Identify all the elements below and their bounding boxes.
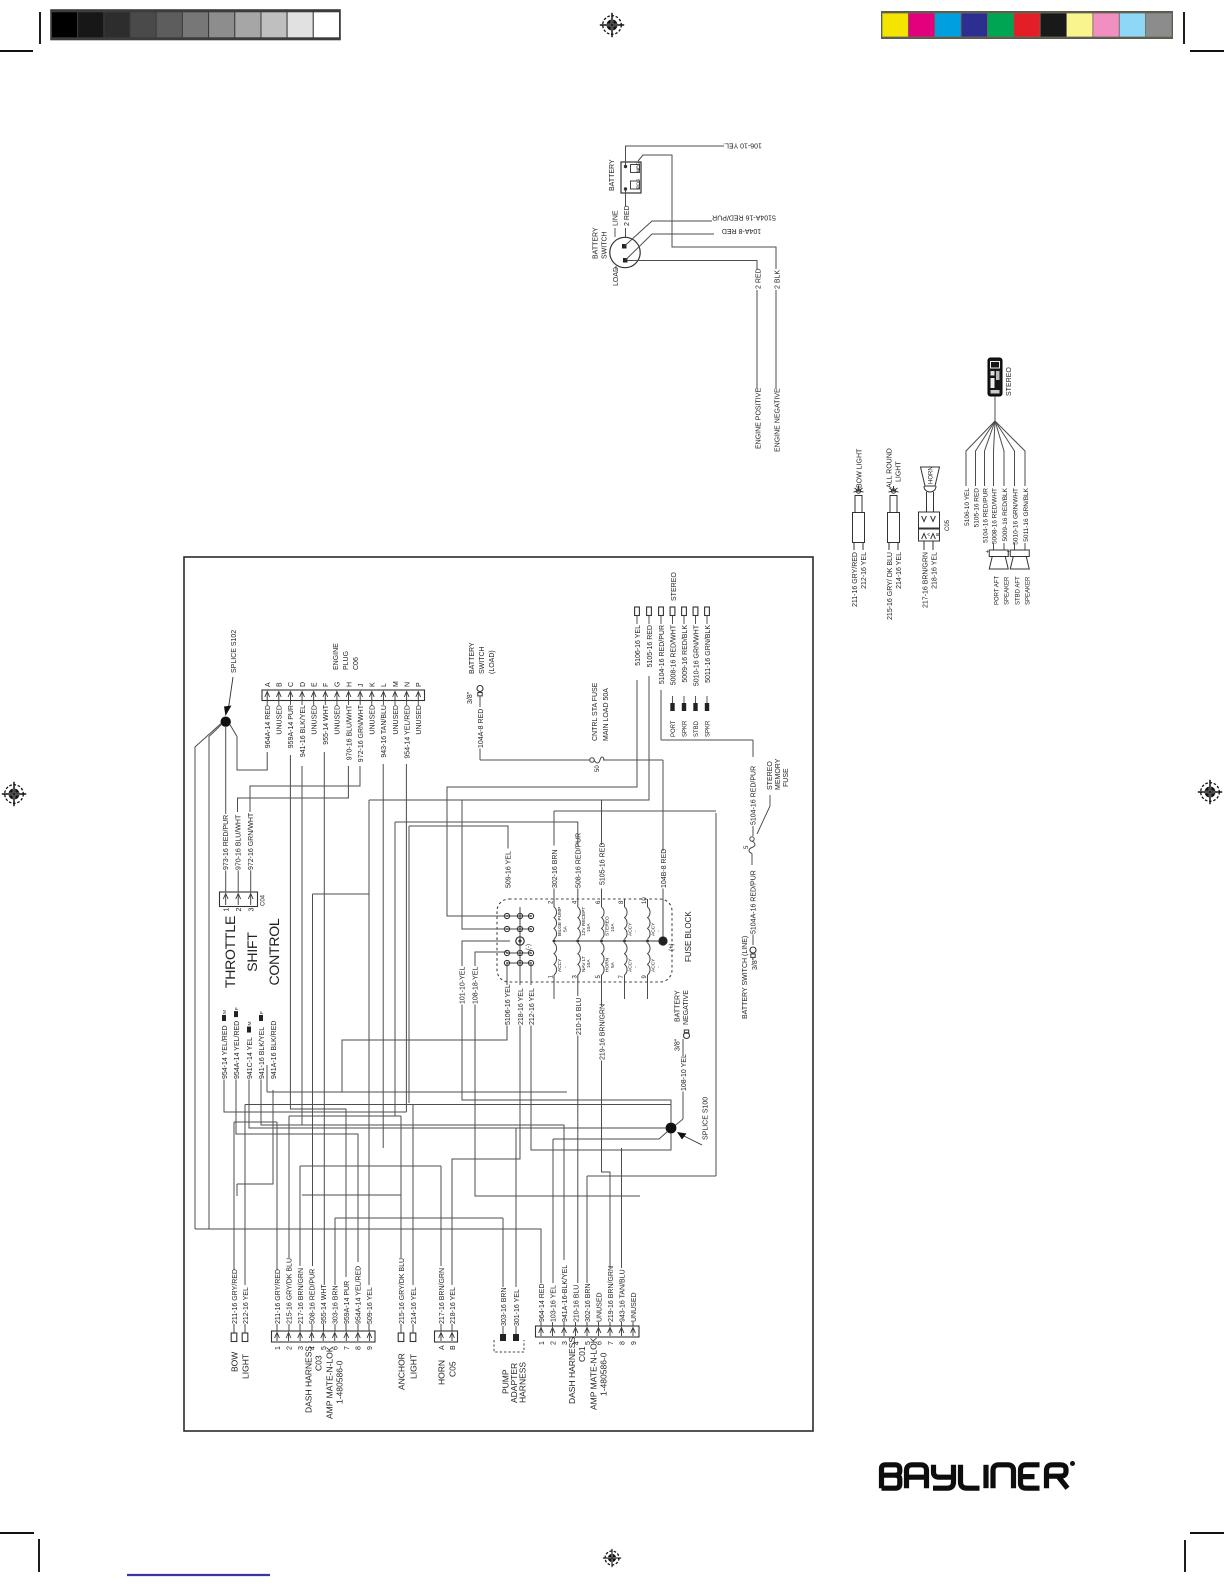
svg-text:-: - bbox=[657, 930, 662, 932]
svg-text:LINE: LINE bbox=[613, 210, 620, 226]
svg-text:C05: C05 bbox=[448, 1361, 458, 1377]
wire 103-16 YEL to splice diag bbox=[552, 1139, 554, 1283]
wire bbox=[586, 1322, 588, 1326]
all-round light bbox=[888, 486, 900, 550]
wire horn 214 density run bbox=[475, 1005, 640, 1197]
svg-text:M: M bbox=[393, 681, 400, 687]
svg-text:-: - bbox=[563, 966, 568, 968]
svg-text:2: 2 bbox=[236, 908, 243, 912]
wire 973-16 RED/PUR S102 to C04-1 bbox=[209, 725, 541, 1284]
wire bbox=[632, 1322, 634, 1326]
wire bbox=[401, 1324, 413, 1333]
svg-text:SPLICE S102: SPLICE S102 bbox=[231, 630, 238, 673]
engine plug connector C06 bbox=[262, 690, 425, 701]
svg-text:954A-14 YEL/RED: 954A-14 YEL/RED bbox=[356, 1266, 363, 1324]
wire bbox=[503, 1326, 516, 1334]
wire bbox=[552, 1322, 554, 1326]
horn bbox=[919, 467, 940, 550]
svg-text:219-16 BRN/GRN: 219-16 BRN/GRN bbox=[599, 1004, 606, 1060]
wire bbox=[288, 1324, 290, 1331]
svg-text:103-16 YEL: 103-16 YEL bbox=[550, 1285, 557, 1322]
svg-text:5011-16 GRN/BLK: 5011-16 GRN/BLK bbox=[705, 625, 712, 683]
wire splice S100 top run bbox=[412, 1105, 414, 1286]
wire 104B-8 RED feed bbox=[462, 1005, 671, 1123]
svg-text:214-16 YEL: 214-16 YEL bbox=[411, 1287, 418, 1324]
svg-text:301-16 YEL: 301-16 YEL bbox=[514, 1289, 521, 1326]
svg-text:509-16 YEL: 509-16 YEL bbox=[367, 1287, 374, 1324]
svg-text:P: P bbox=[416, 682, 423, 687]
wire 970-16 BLU/WHT C04-2 to engine H bbox=[250, 766, 360, 812]
battery positive cable 2 RED to switch bbox=[625, 190, 627, 238]
svg-text:DASH HARNESS: DASH HARNESS bbox=[567, 1337, 577, 1404]
svg-text:219-16 BRN/GRN: 219-16 BRN/GRN bbox=[608, 1266, 615, 1322]
svg-text:A: A bbox=[439, 1345, 446, 1350]
svg-text:STEREO: STEREO bbox=[605, 916, 611, 936]
wire 509-16 YEL feed bbox=[554, 889, 602, 900]
svg-text:J: J bbox=[358, 684, 365, 688]
wire bbox=[234, 1324, 245, 1333]
stereo memory fuse branch bbox=[660, 690, 662, 740]
wire 101-10-YEL to ground bus bbox=[475, 952, 507, 966]
svg-text:7: 7 bbox=[344, 1346, 351, 1350]
svg-text:10A: 10A bbox=[610, 923, 616, 932]
svg-text:218-16 YEL: 218-16 YEL bbox=[518, 988, 525, 1025]
svg-text:1: 1 bbox=[224, 908, 231, 912]
svg-text:AMP MATE-N-LOK: AMP MATE-N-LOK bbox=[589, 1337, 599, 1410]
port/stbd speaker bullet plugs bbox=[670, 703, 674, 711]
svg-text:HARNESS: HARNESS bbox=[518, 1362, 528, 1403]
svg-text:SHIFT: SHIFT bbox=[244, 932, 260, 972]
svg-text:H: H bbox=[346, 682, 353, 687]
svg-text:5104A-16 RED/PUR: 5104A-16 RED/PUR bbox=[712, 214, 776, 221]
wire 214-16 YEL anchor drop bbox=[553, 1132, 668, 1140]
throttle/shift control connector C04 bbox=[220, 892, 258, 907]
wire 508/5105 jog bbox=[302, 1194, 401, 1196]
svg-text:211-16 GRY/RED: 211-16 GRY/RED bbox=[275, 1269, 282, 1324]
svg-text:212-16 YEL: 212-16 YEL bbox=[243, 1287, 250, 1324]
svg-text:UNUSED: UNUSED bbox=[596, 1292, 603, 1322]
svg-text:215-16 GRY/DK BLU: 215-16 GRY/DK BLU bbox=[286, 1258, 293, 1324]
svg-text:2 BLK: 2 BLK bbox=[775, 270, 782, 289]
svg-text:5A: 5A bbox=[562, 925, 568, 932]
svg-text:BATTERY: BATTERY bbox=[469, 642, 476, 674]
svg-text:12V RECEPT: 12V RECEPT bbox=[581, 907, 587, 936]
wire 215-16 GRY/DK BLU run bbox=[300, 1166, 441, 1266]
wire 210-16 BLU fuse to C01-4 bbox=[602, 982, 611, 1268]
svg-text:50: 50 bbox=[595, 765, 601, 772]
svg-text:972-16 GRN/WHT: 972-16 GRN/WHT bbox=[358, 704, 365, 762]
svg-text:ENGINE NEGATIVE: ENGINE NEGATIVE bbox=[775, 388, 782, 452]
svg-text:C03: C03 bbox=[314, 1355, 324, 1371]
svg-text:(LOAD): (LOAD) bbox=[489, 650, 496, 674]
svg-text:UNUSED: UNUSED bbox=[393, 705, 400, 735]
svg-text:BATTERY SWITCH (LINE): BATTERY SWITCH (LINE) bbox=[742, 936, 749, 1019]
svg-text:954-14 YEL/RED: 954-14 YEL/RED bbox=[404, 705, 411, 759]
wire 218-16 YEL to horn B bbox=[531, 963, 671, 1150]
svg-text:ACCY: ACCY bbox=[628, 958, 634, 972]
svg-text:509-16 YEL: 509-16 YEL bbox=[506, 851, 513, 888]
svg-text:9: 9 bbox=[631, 1341, 638, 1345]
wire C04-1 stub bbox=[237, 871, 239, 893]
svg-text:9: 9 bbox=[367, 1346, 374, 1350]
svg-text:5011-16 GRN/BLK: 5011-16 GRN/BLK bbox=[1023, 487, 1030, 541]
wire bbox=[575, 1322, 577, 1326]
svg-text:5106-10 YEL: 5106-10 YEL bbox=[964, 488, 971, 526]
svg-text:SPLICE S100: SPLICE S100 bbox=[703, 1097, 710, 1140]
svg-text:211-16 GRY/RED: 211-16 GRY/RED bbox=[232, 1269, 239, 1324]
wire bbox=[609, 1322, 611, 1326]
svg-text:2: 2 bbox=[286, 1346, 293, 1350]
svg-text:ACCY: ACCY bbox=[628, 922, 634, 936]
svg-text:E: E bbox=[311, 682, 318, 687]
svg-text:SWITCH: SWITCH bbox=[602, 231, 609, 259]
bottom blue line bbox=[127, 1574, 270, 1576]
svg-text:UNUSED: UNUSED bbox=[631, 1292, 638, 1322]
svg-text:954A-14 YEL/RED: 954A-14 YEL/RED bbox=[234, 1021, 241, 1079]
port aft speaker bbox=[989, 550, 1008, 569]
svg-text:BOW LIGHT: BOW LIGHT bbox=[857, 448, 864, 488]
wire 959A-14 PUR engine C to C03-7 bbox=[301, 766, 303, 1125]
svg-text:+: + bbox=[1007, 550, 1011, 556]
svg-text:STBD: STBD bbox=[694, 720, 700, 737]
svg-text:5009-16 RED/BLK: 5009-16 RED/BLK bbox=[682, 625, 689, 683]
wire 972-16 GRN/WHT C04-3 to engine J bbox=[290, 755, 346, 1277]
svg-text:8: 8 bbox=[619, 1341, 626, 1345]
wire 108-18-YEL lower run bbox=[230, 725, 267, 771]
svg-text:943-16 TAN/BLU: 943-16 TAN/BLU bbox=[381, 705, 388, 758]
svg-text:3/8": 3/8" bbox=[467, 691, 474, 704]
splice S102 bbox=[221, 717, 231, 727]
wire S102 to engine A bbox=[225, 871, 227, 893]
svg-text:NAV LT: NAV LT bbox=[581, 956, 587, 972]
wire C04-3 stub bbox=[238, 766, 349, 812]
wire: 104A-8 RED to fuse block via 50A fuse bbox=[479, 696, 481, 707]
svg-text:A: A bbox=[926, 532, 932, 536]
svg-text:MAIN LOAD 50A: MAIN LOAD 50A bbox=[603, 688, 610, 741]
svg-text:SPKR: SPKR bbox=[683, 720, 689, 737]
wire 101-10-YEL splice feed bbox=[245, 1104, 671, 1106]
wire 106-10 YEL bbox=[626, 146, 725, 165]
wire 941C-14 YEL pigtail to splice S100 bbox=[261, 1080, 564, 1261]
svg-text:NEGATIVE: NEGATIVE bbox=[683, 990, 690, 1025]
svg-text:ACCY: ACCY bbox=[557, 958, 563, 972]
svg-text:THROTTLE: THROTTLE bbox=[222, 916, 238, 988]
grayscale calibration bar bbox=[52, 11, 340, 40]
svg-text:K: K bbox=[370, 682, 377, 687]
svg-text:SPKR: SPKR bbox=[706, 720, 712, 737]
svg-text:108-10 YEL: 108-10 YEL bbox=[681, 1054, 688, 1091]
color calibration bar bbox=[882, 12, 1172, 38]
svg-text:5104A-16 RED/PUR: 5104A-16 RED/PUR bbox=[751, 870, 758, 934]
svg-text:214-16 YEL: 214-16 YEL bbox=[896, 552, 903, 589]
svg-text:1: 1 bbox=[275, 1346, 282, 1350]
svg-text:1-480586-0: 1-480586-0 bbox=[335, 1360, 345, 1404]
wire bbox=[540, 1322, 542, 1326]
svg-text:ENGINE POSITIVE: ENGINE POSITIVE bbox=[756, 388, 763, 449]
wire bbox=[323, 1324, 325, 1331]
svg-text:5104-16 RED/PUR: 5104-16 RED/PUR bbox=[751, 766, 758, 825]
svg-text:A: A bbox=[265, 682, 272, 687]
anchor light connector bbox=[398, 1333, 404, 1342]
stereo bullet connectors bbox=[635, 607, 640, 616]
registration marks bbox=[600, 13, 624, 37]
splice S100 bbox=[666, 1123, 677, 1134]
svg-text:508-16 RED/PUR: 508-16 RED/PUR bbox=[309, 1269, 316, 1324]
svg-text:STEREO: STEREO bbox=[671, 572, 678, 601]
wire 943-16 TAN/BLU engine L drop bbox=[405, 764, 407, 1112]
svg-text:217-16 BRN/GRN: 217-16 BRN/GRN bbox=[439, 1268, 446, 1324]
wire bbox=[311, 1324, 313, 1331]
BAYLINER logo bbox=[882, 1465, 1068, 1488]
svg-text:106-10 YEL.: 106-10 YEL. bbox=[723, 142, 762, 149]
svg-text:973-16 RED/PUR: 973-16 RED/PUR bbox=[223, 815, 230, 870]
svg-text:PORT AFT: PORT AFT bbox=[995, 576, 1001, 605]
svg-text:7: 7 bbox=[608, 1341, 615, 1345]
svg-text:5A: 5A bbox=[610, 961, 616, 968]
wire 108-18-YEL to ground bus bbox=[267, 963, 567, 1092]
dash harness C03 connector bbox=[272, 1331, 376, 1342]
svg-text:HORN: HORN bbox=[605, 957, 611, 972]
stbd aft speaker bbox=[1010, 550, 1029, 569]
svg-text:POS: POS bbox=[636, 179, 642, 189]
svg-text:970-16 BLU/WHT: 970-16 BLU/WHT bbox=[346, 704, 353, 760]
svg-text:UNUSED: UNUSED bbox=[277, 705, 284, 735]
wire network bbox=[195, 676, 671, 1334]
svg-text:943-16 TAN/BLU: 943-16 TAN/BLU bbox=[619, 1269, 626, 1322]
svg-text:217-16 BRN/GRN: 217-16 BRN/GRN bbox=[298, 1268, 305, 1324]
svg-text:5010-16 GRN/WHT: 5010-16 GRN/WHT bbox=[693, 624, 700, 686]
svg-text:CONTROL: CONTROL bbox=[266, 918, 282, 985]
svg-text:B: B bbox=[935, 533, 941, 536]
wire bbox=[563, 1322, 565, 1326]
fuse block dashed outline bbox=[497, 899, 672, 982]
svg-text:FUSE BLOCK: FUSE BLOCK bbox=[684, 911, 693, 962]
svg-text:2: 2 bbox=[550, 1341, 557, 1345]
wire 954A-14 YEL/RED pigtail to C03-8 bbox=[249, 1080, 666, 1129]
wire 217-16 BRN/GRN run bbox=[335, 1218, 503, 1287]
svg-text:964-14 RED: 964-14 RED bbox=[539, 1283, 546, 1322]
wire bbox=[357, 1324, 359, 1331]
wire 955-14 WHT engine F to C03-5 bbox=[382, 764, 384, 1148]
wire 941-16 BLK/YEL engine D drop bbox=[323, 752, 325, 1285]
svg-text:ALL ROUND: ALL ROUND bbox=[887, 448, 894, 488]
wire 303-16 BRN run bbox=[515, 1128, 517, 1287]
svg-text:210-16 BLU: 210-16 BLU bbox=[576, 998, 583, 1035]
svg-text:5104-16 RED/PUR: 5104-16 RED/PUR bbox=[982, 488, 989, 543]
svg-text:B: B bbox=[277, 682, 284, 687]
wire 5106-16 YEL stereo to fuse row1 bbox=[369, 676, 649, 929]
stereo wire fan bbox=[966, 396, 1025, 486]
ground bus strip bbox=[519, 907, 521, 970]
wire 943-16 TAN/BLU C01-8 drop bbox=[276, 1324, 278, 1331]
wire bbox=[299, 1324, 301, 1331]
svg-text:BATTERY: BATTERY bbox=[593, 227, 600, 259]
svg-text:BOW: BOW bbox=[229, 1352, 239, 1372]
wire 954-14 YEL/RED pigtail to run bbox=[236, 1080, 358, 1263]
switch line wire 5104A-16 RED/PUR bbox=[625, 221, 758, 389]
svg-text:303-16 BRN: 303-16 BRN bbox=[501, 1287, 508, 1326]
svg-text:C06: C06 bbox=[353, 657, 360, 670]
svg-text:212-16 YEL: 212-16 YEL bbox=[529, 988, 536, 1025]
svg-text:964A-14 RED: 964A-14 RED bbox=[265, 705, 272, 748]
wire S102 to dash C01-1 964-14 RED bbox=[195, 724, 221, 1230]
svg-text:BATTERY: BATTERY bbox=[675, 990, 682, 1022]
svg-text:954-14 YEL/RED: 954-14 YEL/RED bbox=[222, 1025, 229, 1079]
bow light connector bbox=[231, 1333, 237, 1342]
wire 508-16 RED/PUR col2 feed bbox=[409, 826, 508, 849]
svg-text:8: 8 bbox=[356, 1346, 363, 1350]
svg-text:959A-14 PUR: 959A-14 PUR bbox=[288, 705, 295, 748]
svg-text:1: 1 bbox=[539, 1341, 546, 1345]
svg-text:104A-8 RED: 104A-8 RED bbox=[722, 227, 761, 234]
svg-text:101-10-YEL: 101-10-YEL bbox=[460, 967, 467, 1004]
svg-text:5010-16 GRN/WHT: 5010-16 GRN/WHT bbox=[1012, 488, 1019, 545]
svg-text:217-16 BRN/GRN: 217-16 BRN/GRN bbox=[922, 552, 929, 608]
svg-text:941-16 BLK/YEL: 941-16 BLK/YEL bbox=[259, 1027, 266, 1079]
wire 964A-14 RED splice S102 branch bbox=[225, 726, 227, 814]
svg-text:941A-16 BLK/RED: 941A-16 BLK/RED bbox=[271, 1021, 278, 1079]
svg-text:1-480586-0: 1-480586-0 bbox=[599, 1352, 609, 1396]
svg-text:2 RED: 2 RED bbox=[756, 268, 763, 289]
speaker wires bbox=[994, 543, 1026, 550]
stereo head unit bbox=[988, 358, 1002, 396]
svg-text:941A-16-BLK/YEL: 941A-16-BLK/YEL bbox=[562, 1265, 569, 1322]
wire bbox=[598, 1322, 600, 1326]
wire fuse bottom stubs bbox=[553, 811, 555, 846]
wire bbox=[368, 1324, 370, 1331]
wire 5105-16 RED stereo to fuse col3 bbox=[601, 800, 603, 845]
svg-text:215-16 GRY/ DK BLU: 215-16 GRY/ DK BLU bbox=[887, 552, 894, 620]
pump adapter harness bbox=[494, 1340, 524, 1352]
main schematic frame bbox=[184, 557, 813, 1431]
svg-text:941-16 BLK/YEL: 941-16 BLK/YEL bbox=[300, 705, 307, 757]
svg-text:C01: C01 bbox=[577, 1346, 587, 1362]
svg-text:UNUSED: UNUSED bbox=[416, 705, 423, 735]
svg-text:M: M bbox=[247, 1022, 253, 1026]
svg-text:STEREO: STEREO bbox=[1006, 367, 1013, 396]
wire bbox=[621, 1322, 623, 1326]
svg-text:(+): (+) bbox=[669, 943, 675, 951]
svg-text:211-16 GRY/RED: 211-16 GRY/RED bbox=[852, 552, 859, 607]
wire 5105-16 RED run drop bbox=[313, 800, 370, 1285]
svg-text:N: N bbox=[404, 682, 411, 687]
svg-text:MEMORY: MEMORY bbox=[775, 758, 782, 790]
svg-text:104A-8 RED: 104A-8 RED bbox=[478, 709, 485, 748]
svg-text:LOAD: LOAD bbox=[613, 267, 620, 286]
svg-text:LIGHT: LIGHT bbox=[240, 1354, 250, 1379]
svg-text:5009-16 RED/BLK: 5009-16 RED/BLK bbox=[1002, 487, 1009, 541]
battery switch bbox=[610, 237, 640, 267]
svg-text:F: F bbox=[323, 683, 330, 687]
svg-text:-: - bbox=[657, 966, 662, 968]
svg-text:C04: C04 bbox=[261, 894, 267, 906]
dash harness C01 connector bbox=[536, 1326, 640, 1337]
svg-text:LIGHT: LIGHT bbox=[408, 1354, 418, 1379]
wire bbox=[334, 1324, 336, 1331]
wire bbox=[441, 1324, 452, 1331]
fuse columns bbox=[554, 940, 663, 942]
svg-text:-: - bbox=[634, 966, 639, 968]
svg-text:210-16 BLU: 210-16 BLU bbox=[573, 1285, 580, 1322]
svg-text:ACCY: ACCY bbox=[651, 922, 657, 936]
svg-text:SPEAKER: SPEAKER bbox=[1005, 576, 1011, 605]
svg-text:G: G bbox=[335, 682, 342, 687]
svg-text:10A: 10A bbox=[586, 959, 592, 968]
svg-text:PLUG: PLUG bbox=[343, 651, 350, 670]
svg-text:5106-16 YEL: 5106-16 YEL bbox=[505, 984, 512, 1025]
wire 5105-16 RED col3 stub bbox=[462, 941, 510, 966]
wire 103-16 YEL C01-2 drop bbox=[234, 1122, 277, 1270]
svg-text:5105-16 RED: 5105-16 RED bbox=[599, 843, 606, 885]
svg-text:SPEAKER: SPEAKER bbox=[1026, 576, 1032, 605]
svg-text:5105-16 RED: 5105-16 RED bbox=[647, 625, 654, 667]
svg-text:955-14 WHT: 955-14 WHT bbox=[323, 704, 330, 744]
svg-text:303-16 BRN: 303-16 BRN bbox=[333, 1285, 340, 1324]
svg-text:(-): (-) bbox=[526, 944, 532, 950]
wire bbox=[345, 1324, 347, 1331]
svg-text:5105-16 RED: 5105-16 RED bbox=[973, 488, 980, 528]
svg-text:5008-16 RED/WHT: 5008-16 RED/WHT bbox=[670, 624, 677, 685]
svg-text:5106-16 YEL: 5106-16 YEL bbox=[635, 625, 642, 666]
bow light bbox=[853, 486, 865, 550]
wire S102 left branch bbox=[408, 826, 410, 1103]
wire 212-16 YEL bow drop bbox=[289, 1116, 401, 1258]
svg-text:CNTRL STA FUSE: CNTRL STA FUSE bbox=[592, 682, 599, 741]
svg-text:AMP MATE-N-LOK: AMP MATE-N-LOK bbox=[325, 1346, 335, 1419]
svg-text:L: L bbox=[381, 683, 388, 687]
svg-text:NEG: NEG bbox=[636, 162, 642, 173]
svg-text:SWITCH: SWITCH bbox=[479, 646, 486, 674]
svg-text:955-14 WHT: 955-14 WHT bbox=[321, 1284, 328, 1324]
svg-text:BATTERY: BATTERY bbox=[609, 159, 616, 191]
svg-text:972-16 GRN/WHT: 972-16 GRN/WHT bbox=[248, 812, 255, 870]
wire 302-16 BRN col1 feed bbox=[395, 822, 578, 1116]
svg-text:218-16 YEL: 218-16 YEL bbox=[450, 1287, 457, 1324]
wire 941-16 BLK/YEL pigtail run bbox=[195, 1090, 273, 1229]
svg-text:10: 10 bbox=[642, 897, 648, 904]
wire 5106-16 YEL below block bbox=[452, 963, 520, 1285]
svg-text:F: F bbox=[259, 1011, 265, 1014]
wire 954-14 YEL/RED engine N drop bbox=[224, 1080, 406, 1113]
inner route rectangle bbox=[715, 813, 717, 1176]
svg-text:10A: 10A bbox=[586, 923, 592, 932]
svg-text:302-16 BRN: 302-16 BRN bbox=[552, 849, 559, 888]
wire 301-16 YEL pump drop bbox=[586, 1176, 588, 1283]
svg-text:D: D bbox=[300, 682, 307, 687]
svg-text:3/8": 3/8" bbox=[752, 957, 759, 970]
svg-text:HORN: HORN bbox=[929, 466, 935, 484]
svg-text:302-16 BRN: 302-16 BRN bbox=[585, 1283, 592, 1322]
wire C04-2 stub bbox=[250, 871, 252, 893]
svg-text:STEREO: STEREO bbox=[767, 761, 774, 790]
svg-text:+: + bbox=[986, 550, 990, 556]
wire 219-16 BRN/GRN fuse to C01-7 bbox=[554, 982, 648, 999]
fuse block (+) terminal bbox=[658, 936, 667, 945]
svg-text:BILGE PUMP: BILGE PUMP bbox=[557, 907, 563, 936]
svg-text:3/8": 3/8" bbox=[675, 1038, 682, 1051]
svg-text:ENGINE: ENGINE bbox=[333, 643, 340, 670]
horn connector C05 bbox=[435, 1331, 458, 1342]
svg-text:STBD AFT: STBD AFT bbox=[1016, 576, 1022, 605]
wire fuse top stubs bbox=[662, 760, 664, 899]
svg-text:970-16 BLU/WHT: 970-16 BLU/WHT bbox=[236, 814, 243, 870]
svg-text:B: B bbox=[450, 1345, 457, 1350]
svg-text:UNUSED: UNUSED bbox=[311, 705, 318, 735]
svg-text:C05: C05 bbox=[945, 519, 951, 531]
svg-text:ANCHOR: ANCHOR bbox=[396, 1353, 406, 1390]
svg-text:DASH HARNESS: DASH HARNESS bbox=[304, 1346, 314, 1413]
svg-text:104B-8 RED: 104B-8 RED bbox=[661, 849, 668, 888]
